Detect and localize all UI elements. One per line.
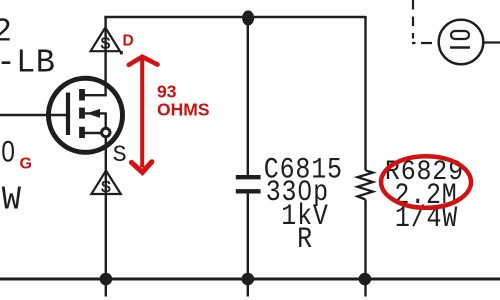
neon lamp right lead — [484, 41, 500, 43]
svg-text:W: W — [2, 181, 22, 219]
dashed wire horizontal (top right) — [412, 42, 439, 44]
dashed wire vertical (top right) — [412, 0, 414, 39]
svg-text:D: D — [123, 33, 134, 50]
resistor R6829 value text — [385, 156, 464, 236]
svg-text:R: R — [297, 223, 313, 257]
transistor Q1 drain stub — [84, 94, 107, 96]
junction node bottom left — [100, 273, 113, 286]
junction node bottom right — [359, 273, 372, 286]
wire gate lead — [0, 114, 68, 116]
capacitor C6815 value text — [264, 154, 343, 257]
svg-text:-LB: -LB — [0, 44, 55, 82]
wire drain branch — [104, 17, 106, 96]
svg-text:$: $ — [101, 178, 111, 197]
safety triangle lower — [91, 171, 120, 194]
svg-text:S: S — [113, 142, 127, 169]
svg-text:OHMS: OHMS — [157, 100, 210, 120]
wire top rail — [104, 16, 365, 18]
safety triangle upper — [91, 28, 120, 52]
transistor Q1 body-source circle — [102, 128, 110, 136]
wire resistor branch lower — [364, 200, 366, 297]
neon lamp electrode capsule — [451, 31, 469, 39]
wire capacitor branch lower — [247, 193, 249, 296]
svg-text:$: $ — [100, 35, 110, 54]
transistor Q1 source stub — [84, 132, 102, 134]
transistor Q1 channel segments — [79, 89, 85, 138]
svg-text:0: 0 — [1, 134, 15, 168]
neon lamp circle — [439, 20, 484, 65]
resistor R6829 zigzag — [358, 170, 374, 199]
transistor Q1 gate bar — [66, 93, 70, 136]
wire resistor branch upper — [364, 16, 366, 170]
wire source branch — [105, 133, 107, 297]
wire bottom rail — [0, 278, 500, 281]
transistor Q1 body circle — [49, 78, 123, 152]
transistor Q1 body stub with arrow — [85, 113, 107, 131]
junction node bottom middle — [242, 273, 255, 286]
wire capacitor branch upper — [247, 17, 249, 175]
svg-text:93: 93 — [157, 82, 177, 102]
capacitor C6815 plates — [236, 177, 261, 191]
junction node top — [242, 10, 254, 25]
svg-text:G: G — [20, 155, 32, 172]
stray dot — [120, 51, 123, 54]
annotation ellipse around R6829 — [381, 156, 471, 208]
neon lamp electrode line — [450, 46, 470, 49]
annotation arrow 93 ohms — [129, 57, 158, 173]
